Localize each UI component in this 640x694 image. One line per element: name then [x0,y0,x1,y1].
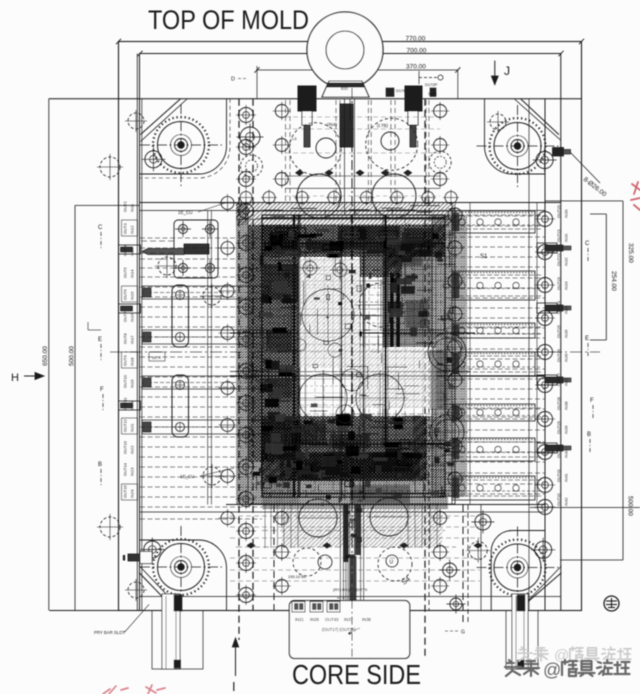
vertical line x481 bottom [480,505,482,611]
svg-text:1E_CU: 1E_CU [178,210,193,215]
hatch zone outer left strip [236,203,248,505]
svg-text:OUT25: OUT25 [556,324,561,338]
bolt circle left col feature [237,124,264,151]
dashed circle left slide dowel 3 [200,464,224,488]
interior circle small 6 [328,343,342,357]
svg-text:D17ZP: D17ZP [425,82,438,87]
dashed circle left slide dowel 1 [155,254,179,278]
bolt circle interior [330,260,351,281]
svg-text:IN38: IN38 [564,401,569,410]
svg-text:F: F [590,398,594,404]
hatch zone top wedge [360,255,402,277]
inner clamp plate rectangle [140,54,561,611]
black double bar right column [390,273,394,347]
sprue bushing right [405,86,422,111]
left slide retainer plate [174,220,218,278]
hatch zone top strip [236,203,456,226]
chamfer diagonal top-left [141,99,181,135]
ejector rod lines bottom [340,505,363,601]
svg-text:G: G [461,630,465,636]
chamfer diagonal bottom-left [139,573,175,611]
dashed column left lower [273,505,275,611]
bolt circles on right column x545 [535,209,555,517]
dimension line 500.00 left [74,205,76,610]
svg-text:IN21: IN21 [295,617,305,622]
explicit dark clusters extra [270,232,300,250]
bottom plate lines [262,530,445,532]
random small line segments in dense zones [251,206,455,497]
bottom half circle right [370,498,408,536]
slide core pencil pin [142,249,184,255]
svg-text:IN32: IN32 [564,257,569,266]
svg-text:IN19: IN19 [130,379,135,388]
guide pillar assembly top-left [140,104,222,186]
svg-text:150.10 BL: 150.10 BL [288,574,307,579]
svg-text:370.00: 370.00 [406,64,426,71]
svg-text:OUT10: OUT10 [123,374,128,388]
dark horizontal bars in center [262,242,445,244]
bolt circle retainer tr [202,221,218,237]
center insert outline [262,215,445,497]
bolt circles on right column x455 [446,206,465,489]
dimension line 370.00 [257,69,458,71]
chamfer diagonal bottom-right [526,573,561,604]
interior big circle 3 [299,374,347,422]
datum G bottom [445,630,458,632]
bolt circle near top-left pillar [141,147,165,171]
bolt circle near bottom-right pillar [531,538,555,562]
white pocket overlay lower [352,348,436,408]
dimension line 254.00 right [605,214,607,340]
bottom right pillar [506,611,538,670]
dashed column right pair [424,99,426,658]
dark vertical bars in center [293,215,295,497]
main plate right edge [544,99,546,611]
side screw bottom-left [140,552,152,564]
svg-text:C: C [585,241,590,247]
svg-text:OUT14: OUT14 [123,462,128,476]
white pocket overlay upper [299,258,359,368]
svg-text:OUT22: OUT22 [556,252,561,266]
bolt circle bottom extra [439,560,460,581]
svg-text:IN41: IN41 [564,473,569,482]
svg-text:OUT31: OUT31 [556,468,561,482]
svg-text:500.00: 500.00 [627,496,634,516]
tiny label column right [556,204,569,506]
hatch zone bottom right block [413,416,445,481]
bottom dashed circle right with U [378,547,412,581]
tiny label column left [122,201,138,500]
horizontal parting line y202 [140,202,561,204]
dashed circle left slide dowel 2 [200,284,224,308]
pocket top-left [140,99,227,174]
svg-text:IN29: IN29 [310,617,320,622]
pocket bottom-left [140,540,227,611]
interior circle small 5 [294,339,306,351]
left rows right boundary verticals [207,211,209,505]
top middle horizontal lines [285,100,440,202]
svg-text:IN38: IN38 [362,617,372,622]
hatch zone outer right strip [455,215,467,497]
svg-text:IN31: IN31 [564,233,569,242]
bolt circle near bottom-left pillar [140,538,164,562]
interior circle small 1 [341,369,363,391]
dashed circle left edge dowel top [97,154,123,180]
svg-text:OUT12: OUT12 [123,418,128,432]
svg-text:IN40: IN40 [564,449,569,458]
svg-text:@: @ [543,660,561,680]
datum G bottom2 [337,597,348,599]
dashed circle top-left dowel [125,110,147,132]
central sprue bar [340,104,353,147]
hatch zone bottom tail [262,497,448,509]
svg-text:OUT8: OUT8 [123,333,128,344]
svg-text:770.00: 770.00 [406,36,426,43]
svg-text:IN16: IN16 [130,313,135,322]
svg-text:IN34: IN34 [564,305,569,314]
hatch zone right inner column [383,240,432,347]
dashed circle bottom-right dowel [466,539,490,563]
dashed circle bottom-left dowel [125,579,147,601]
center inner frame lines [262,215,445,500]
svg-text:J: J [504,64,510,78]
svg-text:OUT9: OUT9 [123,355,128,366]
bolt circles on inner left column x227 [219,194,237,527]
svg-text:IN35: IN35 [564,329,569,338]
svg-text:OUT24: OUT24 [556,300,561,314]
svg-text:OUT11: OUT11 [123,397,128,410]
double dashed circle left column [241,155,263,177]
left slide rails horizontal [142,286,268,434]
right side cylinders [537,243,557,253]
horizontal line y219 [236,218,456,220]
descender lines bottom right group [408,505,437,548]
right area dashed row lines [445,216,545,494]
dashed column right lower pair [462,505,464,625]
outer clamp plate rectangle [119,42,582,611]
dashed column left pair [238,99,240,640]
svg-text:F: F [100,387,104,393]
white pocket overlay mid left [299,370,351,414]
svg-text:OUT2: OUT2 [123,201,128,212]
svg-text:I: I [232,679,236,694]
center runner vertical dark pair [341,230,343,500]
label 8-dia26.00 with leader [570,152,600,183]
svg-text:B: B [98,462,102,468]
connector box bottom [289,601,409,659]
hatch zone bottom dark band [261,416,427,481]
dimension line 325.00 and 500.00 right [622,201,624,560]
diamond vents row bottom [247,543,482,548]
svg-text:(OUT17) (OUT36): (OUT17) (OUT36) [322,627,356,632]
svg-text:IN42: IN42 [564,497,569,506]
svg-text:U: U [390,560,394,566]
left side cylinder rods [119,245,141,254]
bolt circles bottom middle columns [273,509,449,595]
svg-text:OUT23: OUT23 [556,276,561,290]
guide bushing right lower [430,415,464,449]
descender lines bottom left group [265,505,298,548]
svg-text:IN18: IN18 [130,357,135,366]
circled seal symbol bottom right [604,596,619,611]
svg-text:OUT7: OUT7 [123,311,128,322]
svg-text:IN13: IN13 [130,247,135,256]
svg-text:CORE SIDE: CORE SIDE [292,659,421,690]
left vertical slot bar 2 [172,375,189,437]
svg-text:C: C [98,225,103,231]
svg-text:650.00: 650.00 [42,346,49,366]
sprue bushing left [298,86,316,111]
dashed circle top middle right [366,118,418,170]
svg-text:(I.7B): (I.7B) [377,123,389,128]
guide pillar assembly top-right [477,105,559,187]
horizontal parting line y504 [226,504,545,506]
random dark component rectangles in dense zones [253,227,454,559]
svg-text:OUT28: OUT28 [556,396,561,410]
hatch zone top dark band [262,225,445,257]
double dashed circle right column [429,151,451,173]
hatch zone bottom center block [282,509,442,547]
guide pillar assembly bottom-right [477,527,559,609]
horizontal centerline [110,351,600,353]
dark horizontal line y333 [230,332,475,334]
horizontal line y210 [140,210,545,212]
horizontal line y512 [140,511,545,513]
section arrow I bottom [235,645,237,676]
svg-text:OUT13: OUT13 [123,440,128,454]
bolt row above parting line [238,190,459,206]
red watermark strokes right edge [631,182,640,210]
hatch zone bottom medium [262,481,445,497]
svg-text:IN12: IN12 [130,225,135,234]
dark horizontal slide line [230,375,545,377]
svg-text:OUT29: OUT29 [556,420,561,434]
bolt circle interior [305,420,326,441]
svg-text:IN20: IN20 [130,401,135,410]
right slide rows [452,211,541,500]
svg-text:OUT4: OUT4 [123,245,128,256]
connector box feet [292,602,305,613]
hatch zone left column [248,225,300,462]
dashed circle top middle left [289,123,341,175]
svg-text:IN39: IN39 [564,425,569,434]
svg-text:H: H [11,372,19,384]
svg-text:OUT3: OUT3 [123,223,128,234]
svg-text:700.00: 700.00 [407,47,427,54]
eye bolt ring [307,12,383,88]
pocket bottom-right [491,531,545,611]
horizontal line y530 right [530,507,640,509]
main plate bottom edge line [50,610,582,612]
svg-text:5C X: 5C X [152,355,161,360]
svg-text:IN22: IN22 [130,445,135,454]
svg-text:OUT20: OUT20 [556,204,561,218]
svg-text:254.00: 254.00 [610,271,617,291]
svg-text:E: E [585,336,589,342]
side screw top-right [553,148,564,157]
section arrow J [494,61,496,77]
bolt circle near top-right pillar [533,148,557,172]
bolt circle retainer bl [175,260,191,276]
gray watermark toutiao at moju luntan [505,660,521,676]
main plate left edge double [141,99,143,611]
gray watermark echo toutiao at moju luntan [518,647,532,661]
svg-text:OUT27: OUT27 [556,372,561,386]
bottom left pillar [152,611,203,670]
vertical centerline [351,88,353,658]
svg-text:OUT32: OUT32 [556,492,561,506]
svg-text:B: B [587,432,591,438]
right vertical lines [451,203,453,505]
svg-text:L3: L3 [292,136,297,141]
main plate top edge line [49,98,582,100]
bolt circle bottom extra2 [446,595,465,614]
bottom half circle left [299,499,337,537]
svg-text:B30: B30 [341,86,349,91]
small black fitting near D17B [386,88,394,97]
svg-text:3x25: 3x25 [428,91,437,96]
bolt circle retainer br [202,260,218,276]
svg-text:500.00: 500.00 [69,346,76,366]
plate left double line [136,54,138,611]
dimension line 650.00 left [48,99,50,611]
svg-text:OUT5: OUT5 [123,267,128,278]
svg-text:E: E [98,337,102,343]
hatch zone bottom dark band2 [280,453,413,481]
svg-text:IN15: IN15 [130,291,135,300]
diamond vents row [296,170,412,176]
interior big circle 1 [302,289,354,341]
svg-text:325.00: 325.00 [627,243,634,263]
svg-text:IN37: IN37 [564,377,569,386]
svg-text:OUT26: OUT26 [556,348,561,362]
bottom dashed circle left [293,548,321,576]
datum mark D top [419,77,437,79]
hatch zone right mid column [432,215,455,497]
half circle top left of cavity [297,174,341,218]
svg-text:IN21: IN21 [130,423,135,432]
svg-text:OUT21: OUT21 [556,228,561,242]
svg-text:IN17: IN17 [130,335,135,344]
red watermark strokes bottom left [103,685,165,694]
svg-text:OUT15: OUT15 [123,484,128,498]
left vertical slot bar 1 [172,285,189,347]
svg-text:IN24: IN24 [130,489,135,498]
svg-text:IN30: IN30 [564,209,569,218]
svg-text:OUT30: OUT30 [556,444,561,458]
dashed circle top-right dowel [487,111,509,133]
svg-text:PRY BAR SLOT: PRY BAR SLOT [94,630,126,635]
svg-text:OUT6: OUT6 [123,289,128,300]
slide core dark bar [184,244,209,254]
explicit dark clusters [263,264,299,300]
interior big circle 2 dashed [359,283,403,327]
central dashed line through box [351,601,353,659]
svg-text:IN36: IN36 [564,353,569,362]
left area dashed row lines [140,238,262,519]
guide bushing right upper [428,333,466,371]
svg-text:(RY) R4 (B) (D/T79: (RY) R4 (B) (D/T79 [333,587,368,592]
interior big circle 4 [356,374,404,422]
bolt circle retainer tl [175,221,191,237]
chamfer diagonal top-right [521,99,559,135]
pocket top-right [485,99,546,174]
guide pillar assembly bottom-left [140,526,222,608]
small black fitting right top [430,88,436,97]
svg-text:IN23: IN23 [130,467,135,476]
half circle top right of cavity [372,174,416,218]
bolt circles on left tie bar column [236,105,256,605]
svg-text:OUT43: OUT43 [325,617,339,622]
interior circle small 2 [336,405,354,423]
line mesh over center block [251,218,454,495]
darkening overlays on dense bands [262,225,445,257]
svg-text:IN11: IN11 [130,203,135,212]
hatch zone left column lower [248,462,300,504]
svg-text:1E_CU: 1E_CU [180,474,195,479]
bolt circle bottom-right upper [471,510,494,533]
bolt circle interior [300,258,321,279]
svg-text:IN14: IN14 [130,269,135,278]
bolt circles top middle columns [273,102,449,188]
eye bolt base trapezoid [322,81,369,97]
dark sprue bars bottom [344,505,349,562]
svg-text:IN33: IN33 [564,281,569,290]
svg-text:D: D [231,77,235,83]
svg-text:TOP OF MOLD: TOP OF MOLD [148,5,309,35]
bottom clamp interior line [140,596,561,598]
dashed circle left edge dowel bottom [97,514,123,540]
